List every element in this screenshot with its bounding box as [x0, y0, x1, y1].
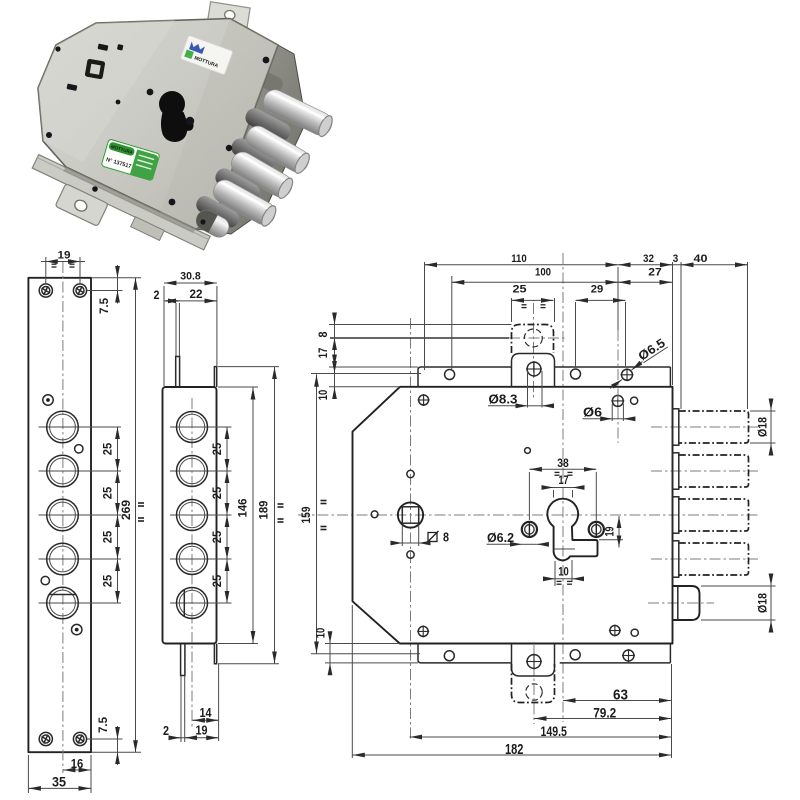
svg-text:40: 40 [694, 253, 708, 265]
vertical centerline [191, 398, 193, 727]
mount tab top-right [207, 2, 250, 29]
pin hole w/ dot top [43, 395, 53, 405]
faceplate tab top [175, 303, 177, 356]
dim 146 [218, 386, 258, 388]
tab centerline bottom [533, 645, 535, 724]
dim 189 [218, 366, 279, 368]
chrome bolt 3 [227, 148, 296, 201]
screw holes dots [147, 89, 154, 96]
svg-text:146: 146 [236, 498, 250, 517]
small hole upper [75, 445, 83, 453]
svg-text:8: 8 [318, 331, 330, 338]
white label with logo [180, 35, 233, 75]
svg-text:10: 10 [558, 565, 569, 579]
strip screw top-2 [571, 369, 581, 379]
bolt collar 1 [673, 409, 679, 445]
svg-text:Ø6: Ø6 [583, 406, 602, 420]
svg-text:25: 25 [210, 530, 224, 543]
svg-text:7.5: 7.5 [99, 297, 111, 314]
svg-text:159: 159 [299, 506, 313, 523]
dim 25 chain middle [226, 427, 228, 603]
svg-text:2: 2 [163, 724, 169, 738]
svg-text:16: 16 [71, 756, 84, 771]
mount tab top right [214, 367, 216, 387]
dim 10 bottom-left [325, 643, 400, 645]
dim 38 [528, 472, 530, 520]
bolt 4 (phantom) [679, 543, 749, 575]
small tab screw top (Ø8.3) [526, 361, 542, 377]
dark right side band [196, 45, 306, 234]
svg-text:269: 269 [119, 500, 133, 520]
small tab bottom [512, 644, 555, 677]
svg-text:25: 25 [210, 574, 224, 587]
keyhole [159, 91, 185, 117]
dim row1: 110 / 32 / 3 / 40 [424, 262, 426, 370]
svg-text:182: 182 [505, 741, 524, 758]
svg-text:19: 19 [196, 724, 208, 738]
svg-text:7.5: 7.5 [98, 716, 110, 733]
dim row3: 25 / 29 [511, 298, 513, 322]
svg-text:25: 25 [513, 284, 527, 296]
dim 2 / 22 [165, 300, 217, 302]
big tab bottom (phantom) [512, 664, 555, 703]
bolt 2 (phantom) [679, 455, 749, 487]
dim 30.8 [163, 286, 165, 386]
circle 3 [170, 514, 232, 516]
svg-text:30.8: 30.8 [180, 271, 201, 283]
svg-text:25: 25 [210, 486, 224, 499]
faceplate bar bottom-left [22, 155, 210, 272]
svg-text:22: 22 [190, 289, 203, 301]
svg-text:17: 17 [559, 473, 569, 487]
dim Ø18 latch [701, 585, 776, 587]
rod stubs on band [255, 69, 285, 95]
svg-text:38: 38 [557, 456, 569, 470]
big tab top (phantom) [512, 325, 554, 354]
faceplate tab bottom [181, 644, 185, 676]
cylinder screw right [589, 522, 604, 537]
bottom dims: 63 / 79.2 / 149.5 / 182 [671, 664, 673, 758]
bolt collar 4 [673, 541, 679, 577]
svg-text:17: 17 [318, 348, 330, 359]
dim 16 [90, 755, 92, 793]
chrome bolt 2 [242, 122, 312, 176]
circle 1 [170, 426, 232, 428]
left dim column: 8 / 17 / 10 [329, 324, 512, 326]
dim 159 [311, 653, 420, 655]
plate front face [38, 19, 278, 230]
small tab top [512, 354, 555, 387]
dim 7.5 bottom [87, 738, 123, 740]
dim 25 chain (4x) [117, 427, 119, 603]
body screw bottom-right [609, 625, 621, 637]
spindle vertical centerline [410, 318, 412, 740]
dim 7.5 top right [92, 277, 141, 279]
bolt 1 (phantom) [679, 411, 749, 443]
svg-text:27: 27 [648, 267, 662, 279]
bolt 3 (phantom) [679, 499, 749, 531]
svg-text:149.5: 149.5 [540, 723, 567, 739]
dark rods behind bolts [242, 105, 293, 143]
dim 14 [218, 664, 220, 741]
svg-text:Ø6.2: Ø6.2 [487, 531, 514, 545]
dim 17 keyhole [553, 490, 555, 498]
cylinder keyhole [547, 499, 597, 561]
main centerline [298, 514, 758, 516]
bolt collar 3 [673, 497, 679, 533]
tab hole centerline horizontal [330, 337, 509, 339]
svg-text:25: 25 [101, 442, 115, 455]
svg-text:3: 3 [673, 253, 679, 265]
bolt collar 2 [673, 453, 679, 489]
small hole near cylinder [525, 448, 531, 454]
bolt hole 3 [39, 514, 122, 516]
latch centerline [648, 602, 714, 604]
small hole below square [407, 551, 414, 558]
small hole above square [407, 470, 414, 477]
svg-text:8: 8 [443, 531, 449, 545]
bolt hole 1 [39, 426, 122, 428]
bolt centerline 2 [651, 470, 758, 472]
label square 8 [428, 533, 437, 542]
circle 5 latch with chord [170, 602, 232, 604]
svg-text:25: 25 [101, 530, 115, 543]
label Ø6.5 slanted [636, 336, 668, 364]
dim Ø18 top [750, 410, 776, 412]
svg-text:2: 2 [154, 290, 160, 302]
body box [163, 387, 217, 644]
tab centerline top [533, 303, 535, 398]
svg-text:25: 25 [210, 442, 224, 455]
circle 2 [170, 470, 232, 472]
svg-text:Ø18: Ø18 [758, 592, 770, 613]
dim 2 / 19 bottom [170, 737, 219, 739]
svg-text:19: 19 [603, 526, 617, 536]
small hole right of Ø6 [631, 397, 638, 404]
dim 19 top [45, 257, 47, 283]
chrome bolt 1 [260, 86, 336, 139]
big tab hole bottom (phantom) [526, 684, 542, 700]
svg-text:14: 14 [200, 706, 212, 720]
dim 269 [92, 751, 141, 753]
cylinder vertical centerline [562, 253, 564, 722]
latch bolt [673, 586, 700, 620]
big tab hole top (phantom) [524, 329, 542, 347]
screw bottom-left [39, 732, 52, 745]
top strip (faceplate edge) [418, 367, 512, 387]
svg-text:Ø18: Ø18 [758, 416, 770, 437]
latch hole 5 with chord [39, 602, 122, 604]
green label [101, 139, 160, 181]
svg-text:19: 19 [58, 250, 71, 262]
chrome bolt 4 [209, 176, 279, 229]
bottom strip (faceplate edge) [418, 644, 512, 663]
strip screw top-1 [445, 370, 455, 380]
dim row2: 100 / 27 [451, 276, 453, 369]
svg-text:10: 10 [318, 390, 330, 401]
pin hole w/ dot bottom [72, 624, 82, 634]
bolt centerline 4 [651, 558, 758, 560]
svg-text:79.2: 79.2 [593, 705, 616, 721]
strip screw top-3 (Ø6.5) [621, 368, 634, 381]
bolt centerline 1 [651, 426, 758, 428]
small hole left on CL [371, 511, 378, 518]
svg-text:189: 189 [257, 500, 271, 519]
svg-text:63: 63 [613, 688, 628, 704]
dim 19 keyhole arm [599, 539, 623, 541]
faceplate outline [28, 278, 91, 752]
strip screw bottom-3 [622, 649, 635, 662]
body screw bottom-left [417, 625, 429, 637]
svg-text:32: 32 [643, 253, 654, 265]
spindle square hole [85, 59, 106, 80]
bolt hole 4 [39, 558, 122, 560]
circle 4 [170, 558, 232, 560]
chrome latch [193, 207, 232, 241]
small hole lower [41, 576, 49, 584]
spindle square hole [398, 502, 423, 527]
cylinder screw left (Ø6.2) [522, 522, 537, 537]
svg-text:29: 29 [591, 284, 604, 296]
dim 35 [27, 755, 29, 793]
body screw top-left [418, 394, 430, 406]
body screw Ø6 [611, 394, 624, 407]
svg-text:25: 25 [101, 486, 115, 499]
svg-text:10: 10 [316, 628, 328, 639]
screw bottom-right [73, 732, 86, 745]
face shading [160, 19, 278, 230]
svg-text:100: 100 [535, 267, 551, 279]
strip screw bottom-2 [570, 650, 580, 660]
small tab screw bottom [526, 654, 542, 670]
svg-text:25: 25 [101, 574, 115, 587]
svg-text:Ø8.3: Ø8.3 [489, 393, 518, 407]
svg-text:35: 35 [52, 774, 66, 790]
svg-text:110: 110 [511, 253, 527, 265]
bolt hole 2 [39, 470, 122, 472]
dim 10 keyhole stem [554, 561, 556, 586]
mount tab bottom right [214, 644, 216, 664]
small slots [97, 44, 108, 51]
vertical centerline [62, 262, 64, 773]
screw top-right [73, 284, 86, 297]
small hole bottom-right [631, 629, 638, 636]
strip screw bottom-1 [444, 651, 454, 661]
body outline [353, 387, 673, 644]
screw top-left [39, 284, 52, 297]
